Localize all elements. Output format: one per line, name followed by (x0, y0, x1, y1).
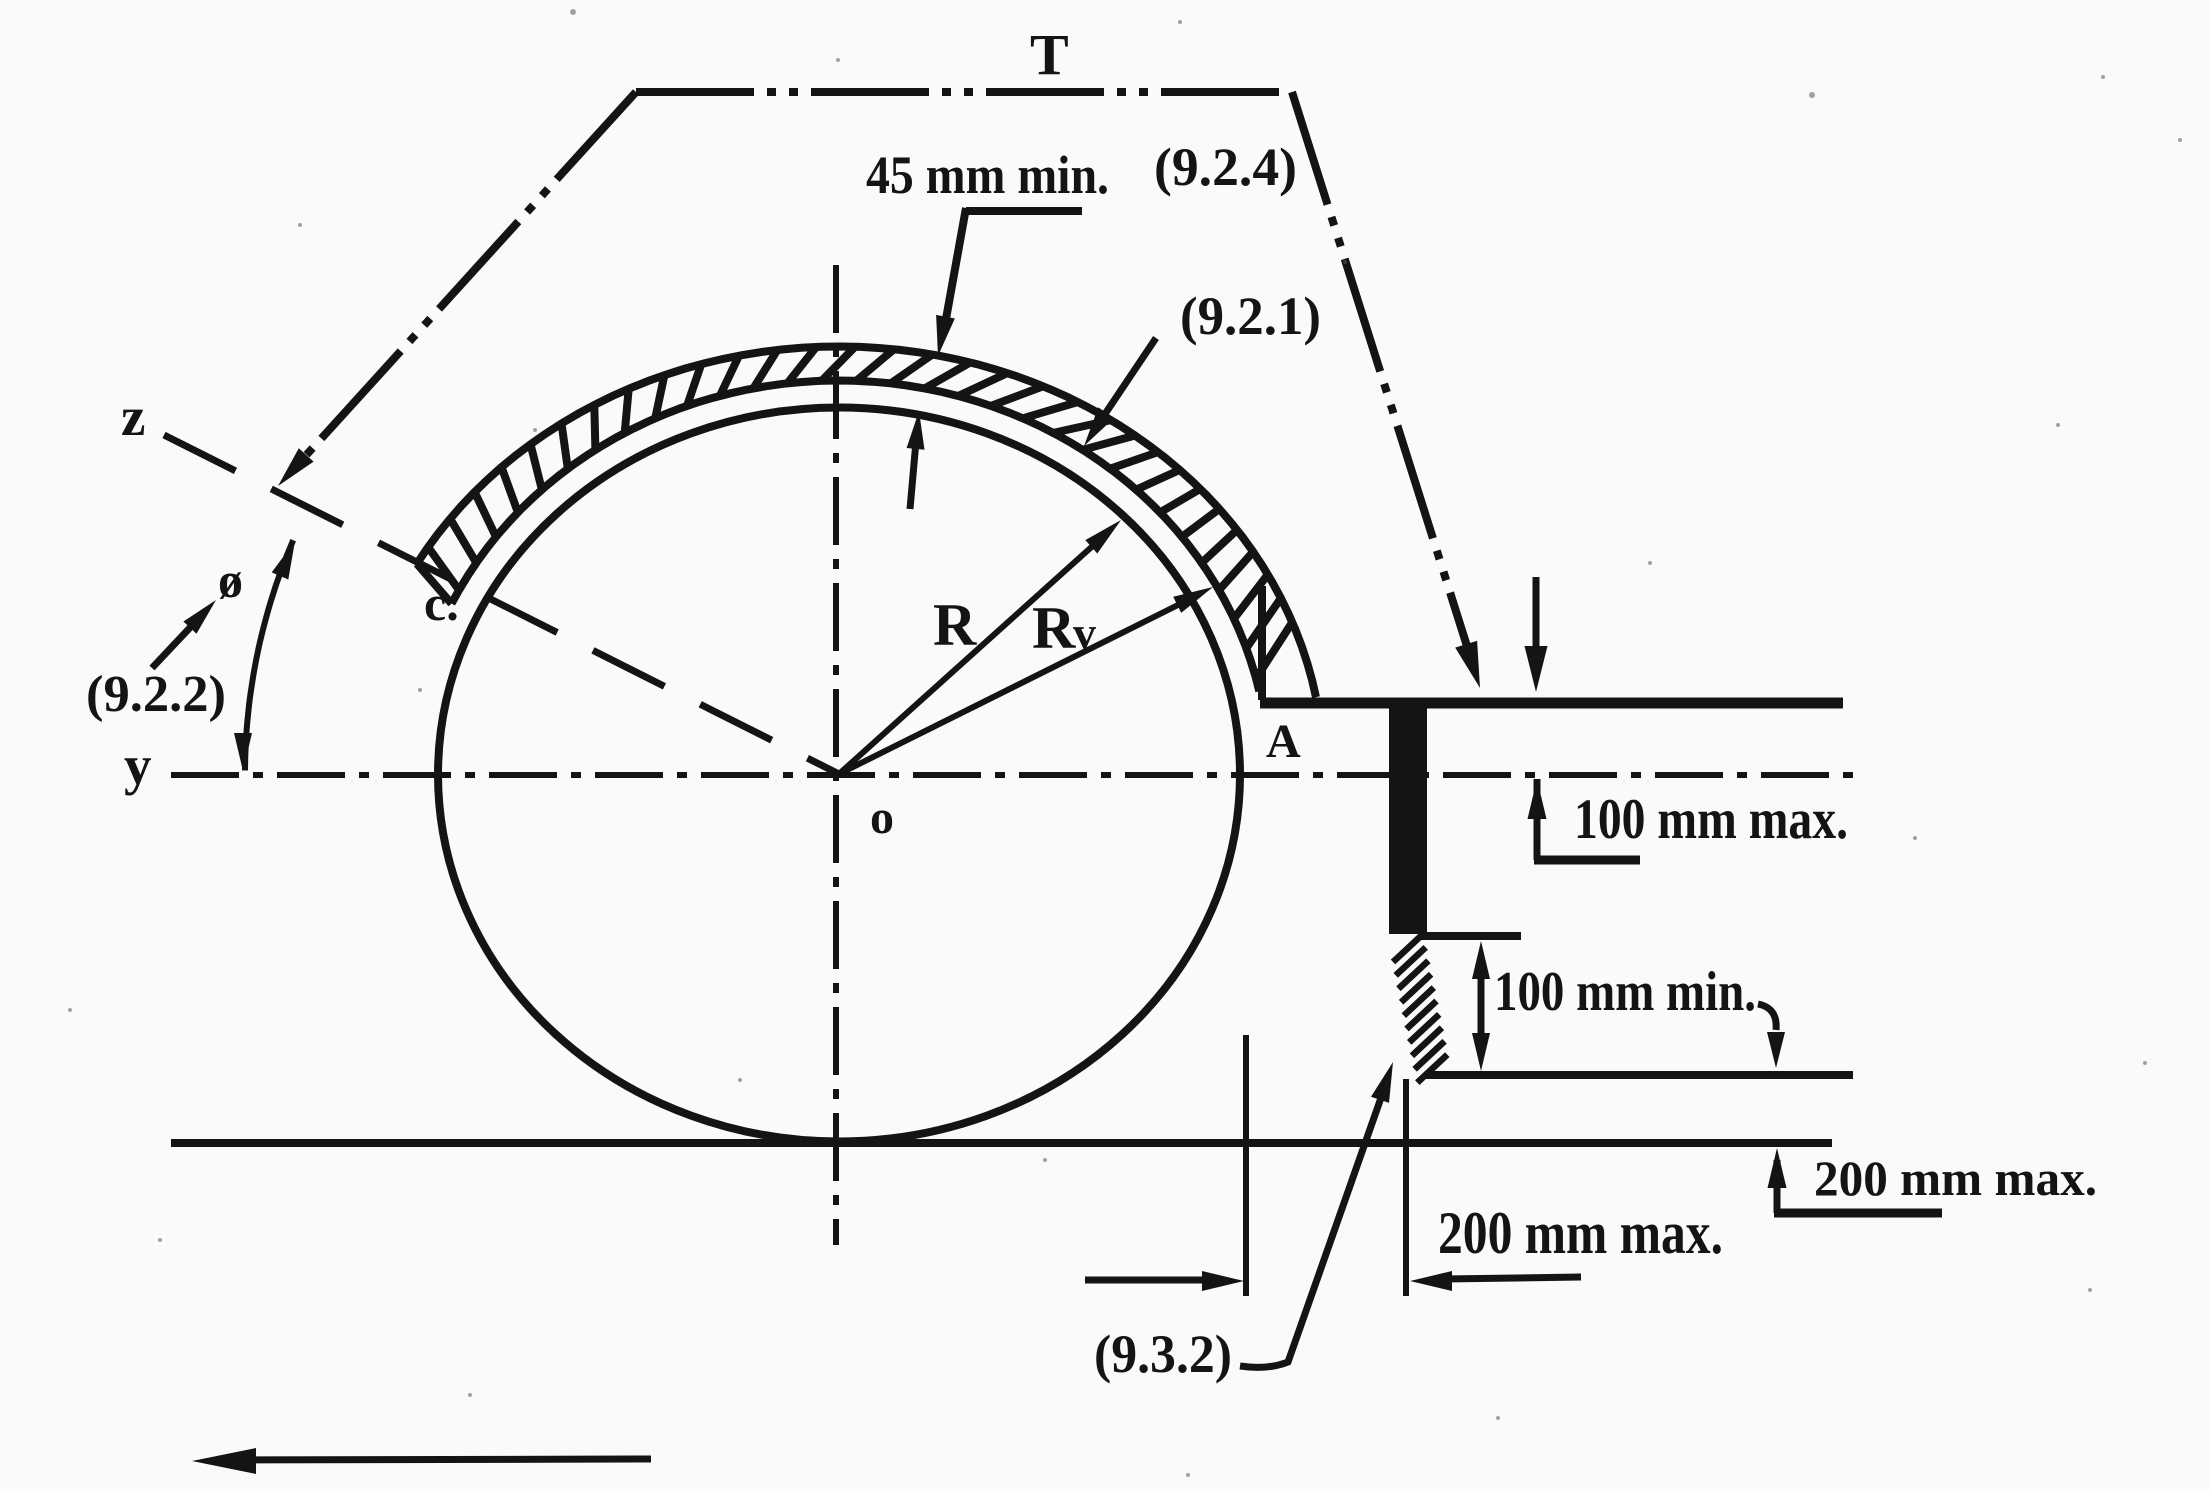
svg-text:T: T (1030, 22, 1069, 87)
trapezoid right slant (phantom line) with arrow (1292, 92, 1472, 662)
line z through c to o (dashed) (164, 435, 839, 774)
tyre circle (wheel), centre o (438, 408, 1240, 1142)
leader arrow (9.2.1) pointing at guard band (1105, 338, 1156, 414)
mudguard inner arc (radius Rv) (452, 381, 1260, 692)
svg-text:v: v (1073, 607, 1096, 658)
horizontal centreline y through o (171, 772, 1862, 778)
200 mm max dimension arrows (bottom centre) (1085, 1277, 1210, 1284)
mudguard outer arc (417, 347, 1316, 698)
svg-text:c.: c. (424, 575, 459, 631)
vertical down arrow at guard edge (1533, 577, 1540, 664)
100 mm min double arrow (1472, 941, 1490, 979)
trapezoid left slant (phantom line) (290, 92, 636, 473)
leader arrow (9.2.2) pointing at Ø (152, 617, 200, 668)
svg-text:(9.2.4): (9.2.4) (1154, 137, 1297, 197)
svg-text:z: z (121, 386, 145, 447)
extension line from tyre outer edge (1243, 1035, 1249, 1296)
svg-text:R: R (1032, 595, 1076, 661)
svg-text:ø: ø (218, 552, 243, 608)
rigid valance (solid black bar) (1389, 700, 1427, 934)
svg-text:(9.2.2): (9.2.2) (86, 666, 226, 723)
svg-text:45 mm min.: 45 mm min. (866, 145, 1109, 205)
extension line from flap edge (1403, 1079, 1409, 1296)
svg-text:o: o (870, 791, 894, 844)
100 mm min top reference tick (1418, 932, 1521, 940)
svg-text:200 mm max.: 200 mm max. (1814, 1150, 2097, 1206)
angle Ø dimension arc (245, 540, 293, 770)
45mm leader elbow with down arrow onto outer arc (966, 207, 1082, 215)
mudguard top horizontal edge (1260, 698, 1843, 709)
svg-text:200 mm max.: 200 mm max. (1438, 1200, 1723, 1266)
direction of travel arrow (222, 1459, 651, 1460)
hook leader after 100 mm min (1758, 1004, 1776, 1030)
flap lower edge line (1425, 1071, 1853, 1079)
svg-text:R: R (933, 592, 977, 658)
leader (9.3.2) to flap (1240, 1078, 1388, 1367)
svg-text:A: A (1266, 715, 1301, 768)
mudguard hatching (428, 347, 1292, 679)
flexible flap hatched strip below bar (1393, 934, 1447, 1083)
svg-text:y: y (124, 735, 152, 796)
100 mm max dimension arrow (1528, 779, 1547, 819)
45mm up arrow at tyre top (910, 430, 917, 509)
svg-text:100 mm max.: 100 mm max. (1574, 788, 1848, 851)
trapezoid top edge (phantom line) (636, 88, 1292, 96)
radius Rv line with arrow (guard inner radius) (839, 596, 1196, 774)
svg-text:(9.3.2): (9.3.2) (1094, 1324, 1232, 1384)
radius R line with arrow (tyre radius) (839, 534, 1106, 774)
mudguard left end cap at c (417, 564, 452, 604)
mudguard right end vertical edge (1258, 586, 1266, 700)
ground line (171, 1139, 1832, 1147)
vertical centreline through o (833, 265, 839, 1245)
200 mm max dimension (right, ground clearance) (1768, 1148, 1787, 1188)
svg-text:100 mm min.: 100 mm min. (1494, 961, 1756, 1023)
svg-text:(9.2.1): (9.2.1) (1180, 286, 1321, 346)
